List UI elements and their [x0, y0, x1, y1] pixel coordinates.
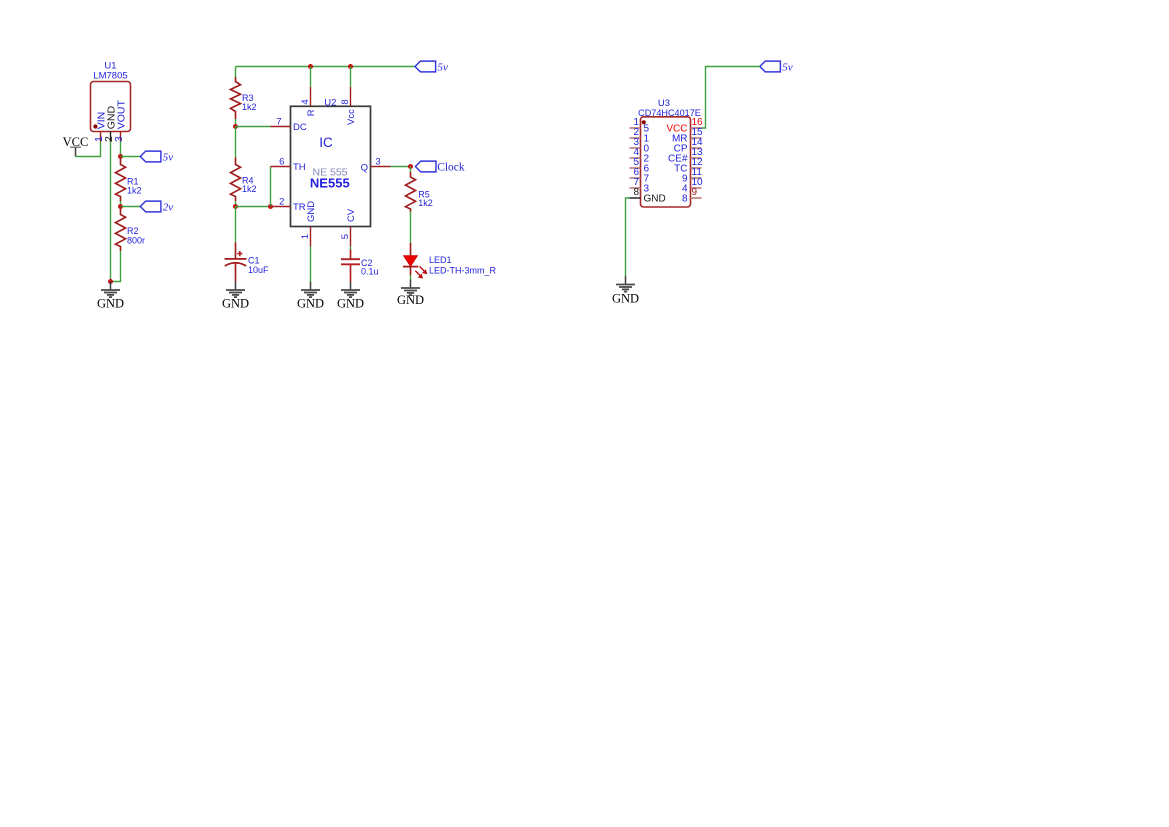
node Clock junction — [408, 164, 413, 169]
wire rail to pin 4 — [310, 67, 312, 88]
node rail junction pin8 — [348, 64, 353, 69]
svg-text:1k2: 1k2 — [242, 184, 257, 194]
U2 pin 2 stub — [271, 206, 291, 208]
U3 pin 5 stub — [630, 167, 641, 169]
wire U2 pin1 to ground — [310, 247, 312, 282]
svg-text:1k2: 1k2 — [127, 185, 142, 195]
svg-text:GND: GND — [644, 194, 666, 205]
resistor R1 — [116, 157, 126, 207]
svg-text:DC: DC — [293, 122, 307, 133]
svg-text:5v: 5v — [163, 152, 174, 164]
wire TR junction to pin 2 — [236, 206, 271, 208]
wire R4 junction down to C1 — [235, 207, 237, 243]
resistor R5 — [406, 167, 416, 243]
ground symbol (C2) — [337, 282, 364, 311]
ground symbol (left) — [97, 282, 124, 311]
svg-text:8: 8 — [682, 194, 688, 205]
capacitor C2 — [341, 250, 360, 282]
U3 pin 13 stub — [691, 157, 702, 159]
svg-text:NE555: NE555 — [310, 176, 350, 191]
U1 pin 2 stub — [110, 132, 112, 142]
svg-text:GND: GND — [306, 201, 317, 222]
net flag 5v (right) — [760, 61, 793, 74]
svg-text:GND: GND — [612, 292, 639, 306]
svg-text:LED-TH-3mm_R: LED-TH-3mm_R — [429, 266, 497, 276]
ground symbol (C1) — [222, 282, 249, 311]
U2 pin 1 stub — [310, 227, 312, 247]
node TH/TR junction — [268, 204, 273, 209]
svg-text:LED1: LED1 — [429, 255, 452, 265]
svg-text:5v: 5v — [438, 62, 449, 74]
U3 pin 8 stub — [630, 197, 641, 199]
U3 pin 2 stub — [630, 137, 641, 139]
U3 pin 15 stub — [691, 137, 702, 139]
node TR junction left — [233, 204, 238, 209]
U3 pin1 dot — [642, 120, 646, 124]
node 2v junction — [118, 204, 123, 209]
wire U2 pin5 to C2 — [350, 247, 352, 250]
svg-text:GND: GND — [97, 297, 124, 311]
net flag VCC — [63, 135, 89, 156]
svg-text:10uF: 10uF — [248, 265, 269, 275]
svg-text:Vcc: Vcc — [346, 109, 357, 125]
node 5v junction — [118, 154, 123, 159]
U1 pin1 dot — [93, 124, 97, 128]
U2 pin 5 stub — [350, 227, 352, 247]
resistor R3 — [231, 67, 241, 127]
svg-text:4: 4 — [300, 99, 311, 104]
svg-text:3: 3 — [375, 156, 380, 167]
wire U3 pin 8 to ground — [626, 198, 630, 276]
svg-text:1k2: 1k2 — [242, 102, 257, 112]
resistor R4 — [231, 127, 241, 207]
U2 pin 4 stub — [310, 87, 312, 106]
U2 pin 7 stub — [271, 126, 291, 128]
svg-text:VOUT: VOUT — [115, 100, 127, 130]
ground symbol (LED1) — [397, 280, 424, 308]
wire 5v top rail — [236, 66, 416, 68]
svg-text:3: 3 — [113, 136, 125, 142]
wire Q output — [391, 166, 411, 168]
svg-text:5: 5 — [340, 234, 351, 239]
U3 pin 1 stub — [630, 127, 641, 129]
svg-text:800r: 800r — [127, 235, 145, 245]
U3 pin 16 stub — [691, 127, 702, 129]
U3 pin 6 stub — [630, 177, 641, 179]
U3 pin 9 stub — [691, 197, 702, 199]
svg-text:1: 1 — [300, 234, 311, 239]
U3 pin 14 stub — [691, 147, 702, 149]
wire U1 pin 2 down to ground rail — [110, 142, 112, 282]
op-amp U3 body (CD74HC4017E box) — [641, 117, 691, 207]
U2 pin 6 stub — [271, 166, 291, 168]
net flag 2v — [140, 201, 173, 214]
wire rail to pin 8 — [350, 67, 352, 88]
op-amp U1 body (LM7805 regulator box) — [91, 82, 131, 132]
svg-text:GND: GND — [397, 293, 424, 307]
U3 pin 11 stub — [691, 177, 702, 179]
svg-text:9: 9 — [692, 187, 698, 198]
svg-text:TR: TR — [293, 202, 306, 213]
svg-text:Q: Q — [361, 162, 368, 173]
wire TH feedback — [270, 167, 272, 207]
U1 pin 1 stub — [100, 132, 102, 142]
op-amp U2 body (NE555 IC box) — [291, 106, 371, 226]
svg-text:6: 6 — [279, 156, 284, 167]
node DC junction — [233, 124, 238, 129]
svg-text:5v: 5v — [782, 62, 793, 74]
U2 pin 3 stub — [371, 166, 391, 168]
svg-text:GND: GND — [337, 297, 364, 311]
net flag 5v (left) — [140, 151, 173, 164]
svg-text:8: 8 — [633, 187, 639, 198]
U3 pin 4 stub — [630, 157, 641, 159]
svg-text:1k2: 1k2 — [418, 198, 433, 208]
node ground junction (left) — [108, 279, 113, 284]
svg-text:0.1u: 0.1u — [361, 267, 379, 277]
U3 pin 10 stub — [691, 187, 702, 189]
svg-text:U2: U2 — [324, 97, 336, 108]
wire 5v flag to U3 pin 16 — [697, 67, 760, 129]
wire 5v node to flag — [121, 156, 141, 158]
svg-text:LM7805: LM7805 — [93, 71, 127, 82]
svg-text:TH: TH — [293, 162, 306, 173]
wire 2v node to flag — [121, 206, 141, 208]
svg-text:IC: IC — [319, 135, 333, 150]
wire VCC to U1 pin 1 — [76, 142, 101, 157]
ground symbol (U3) — [612, 276, 639, 306]
wire DC junction to pin 7 — [236, 126, 271, 128]
svg-text:7: 7 — [276, 116, 281, 127]
svg-text:GND: GND — [297, 297, 324, 311]
U3 pin 3 stub — [630, 147, 641, 149]
svg-text:2v: 2v — [163, 202, 174, 214]
svg-text:CV: CV — [346, 208, 357, 222]
U2 pin 8 stub — [350, 87, 352, 106]
ground symbol (U2 pin1) — [297, 282, 324, 311]
wire U1 pin 3 down to 5v node — [120, 142, 122, 157]
net flag Clock — [415, 161, 465, 174]
svg-text:8: 8 — [340, 99, 351, 104]
svg-text:GND: GND — [222, 297, 249, 311]
wire R2 bottom to ground junction — [111, 251, 121, 282]
capacitor C1 — [225, 242, 247, 281]
U1 pin 3 stub — [120, 132, 122, 142]
resistor R2 — [116, 207, 126, 252]
LED LED1 — [403, 243, 428, 280]
node rail junction pin4 — [308, 64, 313, 69]
U3 pin 7 stub — [630, 187, 641, 189]
svg-text:2: 2 — [279, 196, 284, 207]
svg-text:R: R — [306, 109, 317, 116]
svg-text:Clock: Clock — [437, 162, 465, 174]
net flag 5v (middle) — [415, 61, 448, 74]
U3 pin 12 stub — [691, 167, 702, 169]
